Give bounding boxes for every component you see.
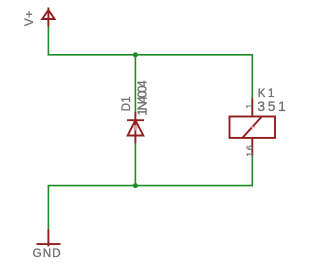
wire bottom horizontal [48, 185, 254, 187]
origin cross diode [133, 125, 139, 131]
wire diode lower [134, 143, 136, 186]
wire relay upper [251, 55, 253, 99]
wire V+ down [47, 27, 49, 55]
relay K1 coil [230, 98, 276, 156]
wire relay lower [251, 156, 253, 185]
svg-text:16: 16 [244, 145, 254, 156]
ground GND symbol [37, 229, 61, 246]
supply V+ symbol [42, 8, 54, 27]
svg-text:D1: D1 [121, 96, 133, 111]
svg-text:GND: GND [33, 247, 61, 260]
wire top horizontal [48, 54, 254, 56]
svg-text:351: 351 [257, 99, 285, 114]
wire gnd down [47, 186, 49, 230]
diode D1 [127, 112, 144, 143]
junction bottom node [133, 183, 138, 188]
wire diode upper [134, 55, 136, 113]
svg-text:1: 1 [244, 104, 254, 109]
svg-text:V+: V+ [22, 11, 36, 27]
junction top node [133, 52, 138, 57]
svg-text:K1: K1 [258, 86, 275, 100]
svg-text:1N4004: 1N4004 [135, 80, 150, 116]
origin cross relay [250, 124, 256, 130]
